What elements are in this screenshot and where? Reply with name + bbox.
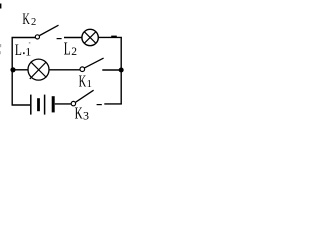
svg-text:2: 2 <box>31 17 36 28</box>
svg-text:2: 2 <box>71 46 77 58</box>
switch K3 blade <box>76 90 94 102</box>
svg-text:K: K <box>75 104 83 121</box>
battery cell 2 long plate <box>44 95 46 115</box>
wire bottom-left segment <box>12 104 31 106</box>
svg-text:3: 3 <box>83 108 89 121</box>
lamp L1 <box>28 59 49 80</box>
battery cell 1 long plate <box>30 95 32 115</box>
wire top-left segment <box>12 37 36 39</box>
wire middle-right segment <box>102 69 121 71</box>
wire bottom-right segment <box>104 103 122 105</box>
wire bottom middle segment <box>55 103 71 105</box>
battery cell 1 short plate <box>37 98 40 111</box>
stray mark top-left edge <box>0 4 1 9</box>
wire top-right segment <box>98 36 122 38</box>
wire middle-left segment <box>12 69 28 71</box>
switch K2 pivot circle <box>35 35 39 39</box>
label K2 <box>22 11 36 28</box>
stray faint marks left edge <box>0 44 1 47</box>
node junction left <box>10 67 15 72</box>
svg-text:1: 1 <box>25 45 31 59</box>
label K1 <box>79 71 92 90</box>
svg-text:K: K <box>79 71 87 90</box>
switch K2 contact stub <box>57 38 62 40</box>
wire left vertical <box>11 38 13 106</box>
switch K3 contact stub <box>97 104 102 106</box>
svg-text:L: L <box>64 38 71 58</box>
node junction right <box>119 68 124 73</box>
switch K2 blade <box>40 25 59 35</box>
junction bump on top-right wire <box>111 36 117 38</box>
label L2 <box>64 38 77 58</box>
svg-text:K: K <box>22 11 30 28</box>
wire top middle segment <box>64 37 82 39</box>
svg-text:L: L <box>15 42 22 59</box>
battery cell 2 short plate <box>52 96 55 112</box>
lamp L2 <box>82 29 98 45</box>
label L1 <box>15 42 31 59</box>
switch K1 pivot circle <box>80 67 85 72</box>
wire middle segment <box>49 69 80 71</box>
switch K3 pivot circle <box>71 101 75 105</box>
wire right vertical <box>120 37 122 104</box>
switch K1 blade <box>85 58 104 68</box>
label K3 <box>75 104 89 123</box>
svg-text:1: 1 <box>87 79 92 90</box>
